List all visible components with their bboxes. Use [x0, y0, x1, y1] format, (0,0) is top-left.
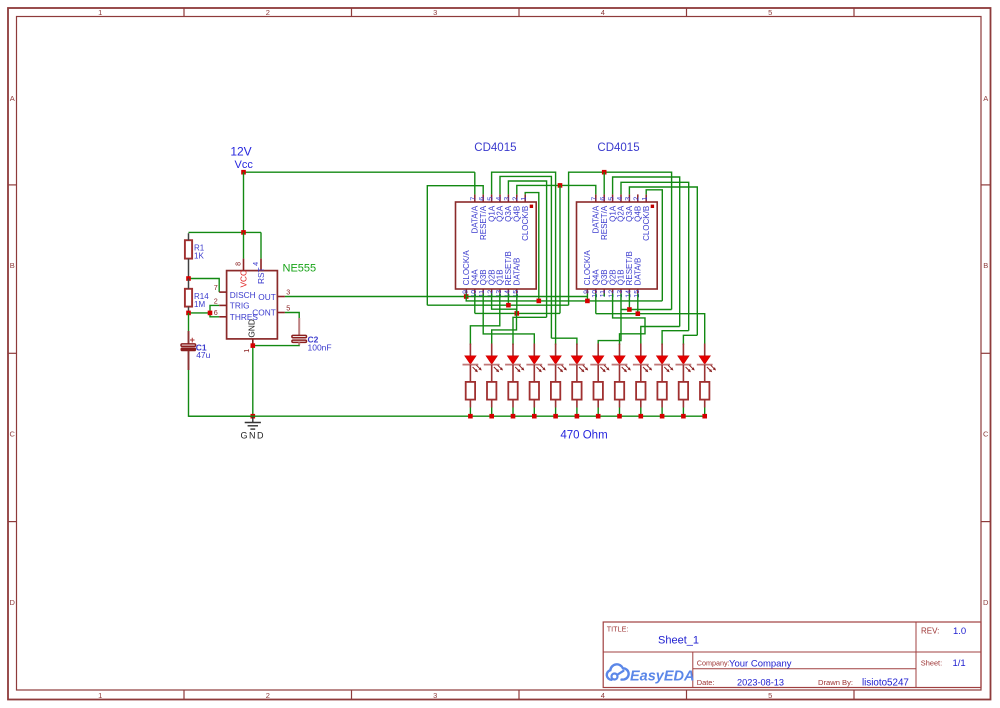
- junction TRIG-THRES tee: [208, 311, 213, 316]
- svg-text:EasyEDA: EasyEDA: [630, 669, 694, 685]
- wire U3 Q2A loop: [621, 182, 689, 330]
- resistor R1 bottom pin: [188, 259, 190, 279]
- junction R14-C1: [186, 311, 191, 316]
- wire U3 Q3A loop: [629, 187, 697, 335]
- capacitor C1 bottom pin: [188, 351, 190, 370]
- wire LED6 feed: [551, 338, 577, 345]
- wire reset2 run: [622, 309, 672, 311]
- wire U2 pin14 riser: [507, 294, 509, 306]
- wire LED7 feed: [598, 294, 621, 346]
- svg-text:1: 1: [242, 349, 251, 353]
- wire U2 RESET/A: [427, 186, 483, 306]
- wire pin8 riser: [243, 232, 245, 258]
- resistor R10 470 Ohm: [636, 382, 645, 416]
- wire NE555 top horizontal (R1 top to RST): [189, 231, 262, 233]
- svg-text:7: 7: [214, 283, 218, 292]
- svg-text:DATA/B: DATA/B: [634, 258, 643, 286]
- capacitor C2 bottom pin: [298, 342, 300, 345]
- svg-text:1: 1: [519, 197, 528, 201]
- wire reset1 run: [427, 304, 568, 306]
- svg-text:Date:: Date:: [697, 678, 715, 687]
- svg-text:C: C: [9, 430, 15, 439]
- junction U2 RESET/B: [506, 303, 511, 308]
- svg-text:1.0: 1.0: [953, 626, 966, 637]
- svg-text:CONT: CONT: [252, 308, 276, 318]
- title block rev column divider: [915, 622, 917, 688]
- capacitor C2 bottom plate: [292, 340, 307, 342]
- junction U2 DATA/B: [515, 311, 520, 316]
- wire U3 pin15 riser: [637, 294, 639, 314]
- LED D12: [697, 344, 716, 382]
- resistor R14 bottom pin: [188, 307, 190, 313]
- svg-text:1K: 1K: [194, 252, 204, 261]
- junction U2 pin9: [464, 294, 469, 299]
- ruler column numbers: [98, 8, 772, 700]
- wire U2 CLOCK/B loop: [525, 193, 539, 301]
- svg-text:+: +: [190, 335, 195, 345]
- svg-text:470 Ohm: 470 Ohm: [560, 430, 607, 442]
- junction rail 6: [575, 414, 580, 419]
- ruler row letters: [9, 94, 989, 607]
- junction rail 11: [681, 414, 686, 419]
- svg-text:CLOCK/B: CLOCK/B: [642, 206, 651, 241]
- svg-text:Your Company: Your Company: [729, 659, 792, 670]
- wire NE555 GND down: [252, 344, 254, 417]
- wire U2 Q1A loop: [492, 172, 556, 345]
- resistor R6 470 Ohm: [551, 382, 560, 416]
- wire U3 CLOCK/B loop: [646, 190, 662, 301]
- resistor R9 470 Ohm: [615, 382, 624, 416]
- svg-text:8: 8: [234, 262, 243, 266]
- junction rail 4: [532, 414, 537, 419]
- LED D8: [612, 344, 631, 382]
- junction R1-R14-DISCH: [186, 276, 191, 281]
- svg-text:A: A: [10, 94, 15, 103]
- wire Vcc to NE555 top: [243, 172, 245, 232]
- resistor R2 470 Ohm: [466, 382, 475, 416]
- svg-text:Sheet_1: Sheet_1: [658, 635, 699, 647]
- junction U3 pin9: [585, 299, 590, 304]
- junction Q4B branch: [558, 183, 563, 188]
- svg-text:GND: GND: [241, 431, 266, 441]
- wire U3 pin14 riser: [628, 294, 630, 310]
- svg-text:Company:: Company:: [697, 659, 730, 668]
- junction rail 2: [489, 414, 494, 419]
- wire clock upper run: [466, 297, 587, 301]
- wire U3 data link: [596, 314, 705, 345]
- svg-text:Vcc: Vcc: [235, 159, 254, 171]
- resistor R14 top pin: [188, 279, 190, 289]
- svg-text:B: B: [10, 261, 15, 270]
- wire LED1 feed: [470, 294, 499, 346]
- resistor R7 470 Ohm: [572, 382, 581, 416]
- svg-text:Sheet:: Sheet:: [921, 659, 942, 668]
- svg-text:1: 1: [640, 197, 649, 201]
- wire DISCH horizontal: [189, 279, 220, 293]
- LED D10: [654, 344, 673, 382]
- junction U2 CLOCK/B join: [537, 299, 542, 304]
- svg-text:12V: 12V: [230, 145, 251, 159]
- NE555 pin numbers: [214, 262, 290, 353]
- junction U3 DATA/B: [636, 311, 641, 316]
- LED D2: [484, 344, 503, 382]
- wire LED3 feed: [513, 317, 547, 345]
- junction rail 5: [553, 414, 558, 419]
- resistor R1 body: [185, 240, 192, 258]
- wire LED10 feed: [662, 331, 689, 345]
- wire U3 RESET/A drop: [603, 172, 605, 194]
- svg-text:A: A: [983, 94, 988, 103]
- capacitor C2 top plate: [292, 335, 307, 337]
- svg-text:REV:: REV:: [921, 627, 939, 636]
- wire LED9 feed: [641, 327, 680, 346]
- wire clock lower run: [466, 297, 662, 301]
- title block logo cell divider: [692, 652, 694, 688]
- junction U3 RESET/A tap: [602, 170, 607, 175]
- wire U2 data link: [475, 312, 560, 314]
- wire LED11 feed: [683, 335, 697, 345]
- junction rail 9: [639, 414, 644, 419]
- svg-text:2: 2: [266, 8, 270, 17]
- svg-text:CLOCK/B: CLOCK/B: [521, 206, 530, 241]
- junction GND rail: [251, 414, 256, 419]
- junction Vcc tap: [241, 170, 246, 175]
- LED D6: [569, 344, 588, 382]
- wire U2 Q4B to U3 DATA/A: [517, 185, 596, 194]
- svg-text:3: 3: [433, 8, 437, 17]
- svg-text:lisioto5247: lisioto5247: [862, 677, 909, 688]
- svg-text:TRIG: TRIG: [230, 301, 250, 311]
- resistor R14 body: [185, 289, 192, 307]
- wire LED8 feed: [613, 294, 645, 346]
- svg-text:4: 4: [601, 691, 605, 700]
- svg-text:4: 4: [251, 262, 260, 266]
- svg-text:4: 4: [601, 8, 605, 17]
- wire U2 pin9 riser: [465, 294, 467, 297]
- NE555 pin stubs: [219, 259, 285, 344]
- ground GND: [241, 416, 266, 440]
- svg-text:3: 3: [433, 691, 437, 700]
- svg-text:C: C: [983, 430, 989, 439]
- svg-text:5: 5: [768, 8, 772, 17]
- wire Vcc drop to U2 pin7: [474, 172, 476, 194]
- svg-text:NE555: NE555: [283, 263, 317, 275]
- ruler row ticks: [8, 185, 991, 522]
- LED D5: [548, 344, 567, 382]
- junction rail 1: [468, 414, 473, 419]
- junction rail 7: [596, 414, 601, 419]
- LED D1: [463, 344, 482, 382]
- LED D9: [633, 344, 652, 382]
- LED D3: [505, 344, 524, 382]
- junction rail 8: [617, 414, 622, 419]
- wire U2 Q3A loop: [508, 181, 546, 317]
- svg-text:DATA/B: DATA/B: [513, 258, 522, 286]
- EasyEDA logo swirl: [612, 674, 618, 680]
- IC U2 CD4015 (left): [456, 194, 537, 297]
- resistor R8 470 Ohm: [594, 382, 603, 416]
- svg-text:47u: 47u: [196, 350, 210, 360]
- svg-text:1: 1: [98, 691, 102, 700]
- wire reset top link: [569, 172, 672, 309]
- wire U3 pin11 stub: [603, 294, 605, 297]
- svg-text:TITLE:: TITLE:: [607, 625, 629, 634]
- resistor R5 470 Ohm: [530, 382, 539, 416]
- svg-text:Drawn By:: Drawn By:: [818, 678, 853, 687]
- EasyEDA logo cloud: [607, 664, 629, 679]
- NE555 pin names: [230, 267, 276, 337]
- capacitor C1 bottom plate: [181, 348, 196, 351]
- wire CONT to C2: [285, 313, 299, 319]
- svg-text:1/1: 1/1: [953, 658, 966, 669]
- junction NE555 pin8 tee: [241, 230, 246, 235]
- wire U2 pin10 riser: [474, 294, 476, 314]
- svg-text:OUT: OUT: [258, 292, 276, 302]
- wire THRES-TRIG link: [189, 312, 211, 314]
- junction rail 12: [702, 414, 707, 419]
- wire TRIG branch: [210, 305, 219, 313]
- title block company/date divider: [693, 668, 916, 670]
- wire THRES branch: [210, 313, 219, 317]
- svg-text:D: D: [983, 598, 989, 607]
- wire Vcc rail: [244, 171, 475, 173]
- junction rail 3: [511, 414, 516, 419]
- wire U3 pin9 riser: [586, 294, 588, 297]
- wire ground rail: [189, 415, 705, 417]
- svg-text:3: 3: [286, 288, 290, 297]
- junction rail 10: [660, 414, 665, 419]
- svg-text:2: 2: [266, 691, 270, 700]
- title block outline: [603, 622, 981, 688]
- svg-text:DISCH: DISCH: [230, 290, 256, 300]
- svg-text:2: 2: [214, 297, 218, 306]
- resistor R1 top pin: [188, 233, 190, 240]
- svg-text:9: 9: [462, 290, 469, 294]
- junction C2-GND: [251, 343, 256, 348]
- resistor R4 470 Ohm: [508, 382, 517, 416]
- svg-text:5: 5: [286, 304, 290, 313]
- IC U3 CD4015 (right): [577, 194, 658, 297]
- svg-text:D: D: [9, 598, 15, 607]
- wire LED2 feed: [492, 294, 517, 346]
- svg-text:5: 5: [768, 691, 772, 700]
- capacitor C2 top pin: [298, 318, 300, 335]
- svg-text:100nF: 100nF: [308, 343, 332, 353]
- junction U3 RESET/B: [627, 307, 632, 312]
- EasyEDA logo pen: [617, 671, 623, 675]
- svg-text:2023-08-13: 2023-08-13: [737, 677, 784, 687]
- wire U3 Q1A loop: [613, 177, 680, 327]
- wire C2 bottom: [253, 344, 299, 346]
- LED D11: [676, 344, 695, 382]
- LED D4: [526, 344, 545, 382]
- wire C1 top: [188, 313, 190, 331]
- svg-text:VCC: VCC: [238, 270, 248, 288]
- svg-text:RST: RST: [256, 267, 266, 284]
- wire Q4B branch down: [559, 185, 561, 313]
- svg-text:CD4015: CD4015: [474, 142, 516, 154]
- op-amp U1 NE555 box: [227, 271, 278, 339]
- wire NE555 OUT to clocks: [285, 296, 466, 298]
- capacitor C1 top pin: [188, 331, 190, 344]
- wire LED4 feed: [483, 294, 534, 346]
- resistor R3 470 Ohm: [487, 382, 496, 416]
- svg-text:1: 1: [98, 8, 102, 17]
- resistor R11 470 Ohm: [657, 382, 666, 416]
- svg-text:GND: GND: [247, 319, 257, 337]
- capacitor C1 top plate: [181, 344, 196, 346]
- title block row divider: [603, 651, 981, 653]
- wire U2 pin15 riser: [516, 294, 518, 314]
- resistor R12 470 Ohm: [679, 382, 688, 416]
- svg-text:B: B: [983, 261, 988, 270]
- wire U2 Q2A loop: [500, 176, 551, 338]
- LED D7: [590, 344, 609, 382]
- svg-text:CD4015: CD4015: [597, 142, 639, 154]
- wire C1 bottom to rail: [189, 370, 253, 416]
- wire RST riser: [260, 232, 262, 258]
- svg-text:1M: 1M: [194, 300, 205, 309]
- svg-text:9: 9: [583, 290, 590, 294]
- svg-text:6: 6: [214, 308, 218, 317]
- ruler column ticks: [184, 8, 854, 700]
- resistor R13 470 Ohm: [700, 382, 709, 416]
- wire U3 pin10 riser: [595, 294, 597, 314]
